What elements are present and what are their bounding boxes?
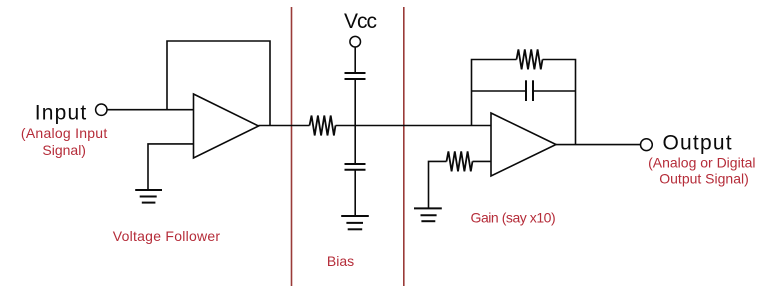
svg-text:Output: Output bbox=[663, 132, 733, 155]
label (Analog or Digital Output Signal) bbox=[648, 155, 755, 187]
wire input to U1 bbox=[107, 109, 193, 111]
wire capacitor branch right bbox=[533, 90, 576, 92]
wire U1 feedback loop bbox=[167, 41, 270, 126]
wire C2 to ground bbox=[354, 170, 356, 216]
svg-text:Gain (say x10): Gain (say x10) bbox=[471, 209, 556, 225]
wire Vcc to C1 bbox=[354, 47, 356, 73]
wire capacitor branch left bbox=[472, 90, 527, 92]
ground (bias) bbox=[341, 216, 369, 229]
svg-text:Input: Input bbox=[35, 102, 88, 125]
svg-text:Voltage Follower: Voltage Follower bbox=[113, 228, 221, 244]
wire bias node to U2 input bbox=[336, 125, 492, 127]
svg-text:(Analog Input: (Analog Input bbox=[21, 125, 108, 141]
capacitor C2 bbox=[345, 164, 366, 170]
Vcc terminal bbox=[350, 36, 361, 47]
capacitor C1 bbox=[345, 73, 366, 79]
wire feedback top right branch bbox=[543, 60, 576, 145]
region divider line left bbox=[291, 7, 293, 286]
region divider line right bbox=[403, 7, 405, 286]
wire U1 output bbox=[259, 125, 310, 127]
op-amp U2 bbox=[491, 113, 556, 176]
resistor R2 (gain input) bbox=[447, 151, 473, 171]
capacitor C3 (feedback) bbox=[526, 80, 533, 101]
op-amp U1 bbox=[194, 94, 259, 158]
wire C1 to bias node bbox=[354, 79, 356, 126]
wire U2 output bbox=[556, 144, 641, 146]
wire U1 inverting input bbox=[148, 144, 194, 190]
svg-text:Signal): Signal) bbox=[42, 142, 86, 158]
svg-text:Vcc: Vcc bbox=[344, 10, 377, 33]
output terminal bbox=[641, 139, 653, 151]
ground (gain) bbox=[414, 208, 442, 221]
wire R2 to U2 inverting input bbox=[473, 160, 492, 162]
resistor R1 (bias) bbox=[310, 116, 336, 136]
svg-text:Output Signal): Output Signal) bbox=[659, 171, 749, 187]
input terminal bbox=[96, 104, 107, 115]
svg-text:(Analog or Digital: (Analog or Digital bbox=[648, 155, 755, 171]
label (Analog Input Signal) bbox=[21, 125, 108, 158]
resistor R3 (feedback) bbox=[517, 49, 543, 69]
svg-text:Bias: Bias bbox=[327, 253, 354, 269]
wire U2 feedback left branch bbox=[472, 60, 517, 126]
wire R2 to ground bbox=[429, 161, 447, 208]
wire bias node to C2 bbox=[354, 126, 356, 165]
ground (follower) bbox=[135, 190, 162, 203]
